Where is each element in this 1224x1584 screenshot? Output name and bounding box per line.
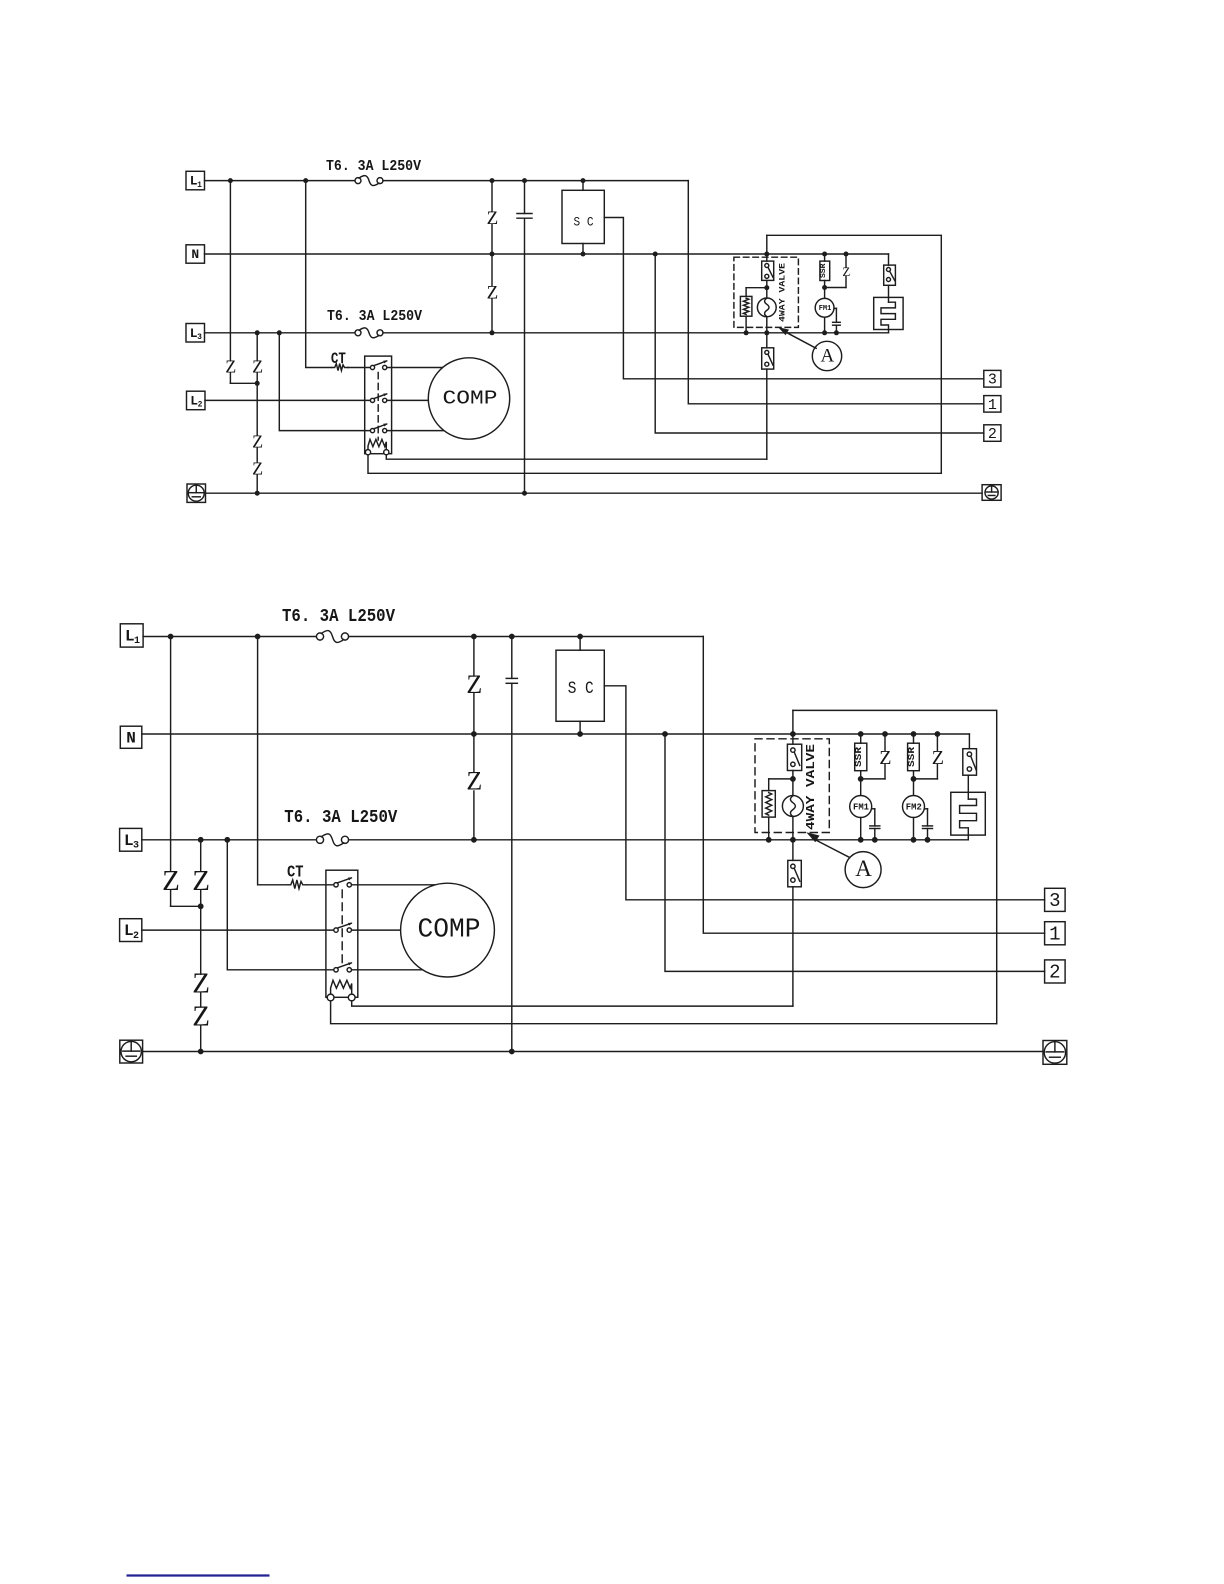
wire Z8 to FM2 node (2) xyxy=(914,778,938,780)
junction on N at x492 xyxy=(490,252,495,257)
junction on N at x825 xyxy=(822,252,827,257)
solid state relay SSR1 box (2) xyxy=(855,743,867,771)
relay contact S1 above valve (2) xyxy=(787,744,801,770)
wire outer loop top and right xyxy=(767,235,942,473)
wire relay right terminal to valve branch (2) xyxy=(352,1001,793,1006)
arrester Z2 left column (2) xyxy=(200,840,202,871)
heater element enclosure xyxy=(874,297,903,329)
junction on N at x861 (2) xyxy=(858,731,864,737)
arrester Z1 left column xyxy=(229,181,231,361)
junction on N at x767 xyxy=(764,252,769,257)
resistor HW boxed (2) xyxy=(768,779,770,791)
junction on N at x583 xyxy=(581,252,586,257)
wire L1 bus right of fuse (2) xyxy=(349,636,704,638)
wire relay pole1 to COMP xyxy=(387,367,469,369)
wire N to thermal switch xyxy=(888,254,890,265)
junction on L3 at x201 (2) xyxy=(198,837,204,843)
relay contact S1 above valve xyxy=(762,261,774,280)
junction on L3 at x257 xyxy=(255,330,260,335)
run capacitor C2 for FM1 (2) xyxy=(872,808,875,810)
wire HW to L3 (2) xyxy=(768,817,770,840)
junction on L1 at x258 (2) xyxy=(255,634,261,640)
arrester Z7 beside SSR1 (2) xyxy=(884,734,886,751)
relay contact S2 below valve (2) xyxy=(788,860,802,886)
svg-text:2: 2 xyxy=(1049,962,1060,984)
wire SC to N (2) xyxy=(579,721,581,734)
svg-text:S C: S C xyxy=(568,679,594,699)
wire FM2 to L3 (2) xyxy=(913,818,915,840)
junction on L3 at x769 (2) xyxy=(766,837,772,843)
overload heater element in relay (2) xyxy=(331,980,352,994)
relay terminal left xyxy=(365,450,370,455)
ground PE terminal right xyxy=(982,485,1001,501)
compressor motor COMP (2) xyxy=(401,883,495,977)
wire L1 to SC xyxy=(582,181,584,191)
wire N to thermal switch (2) xyxy=(968,734,970,749)
terminal 3 box (2) xyxy=(1045,888,1066,911)
arrester Z6 between N and L3 xyxy=(491,254,493,286)
wire contact to valve node xyxy=(766,280,768,298)
fan motor FM1 (2) xyxy=(850,796,872,818)
junction on N at x793 (2) xyxy=(790,731,796,737)
relay terminal right xyxy=(384,450,389,455)
relay contact S2 below valve xyxy=(762,348,774,369)
node L2 terminal box (2) xyxy=(120,919,142,942)
junction on L1 at x306 xyxy=(303,178,308,183)
junction on PE at x524 xyxy=(522,491,527,496)
wire Z7 to FM node xyxy=(825,287,846,289)
solid state relay SSR2 box (2) xyxy=(908,743,920,771)
terminal 2 box (2) xyxy=(1045,960,1066,983)
junction on PE at x201 (2) xyxy=(198,1049,204,1055)
junction on L1 at x230 xyxy=(228,178,233,183)
resistor HW boxed xyxy=(745,288,747,297)
wire SSR1 to FM1 node (2) xyxy=(860,771,862,796)
junction on L1 at x524 xyxy=(522,178,527,183)
svg-text:T6. 3A L250V: T6. 3A L250V xyxy=(327,308,422,325)
wire L3 tap to relay pole 3 xyxy=(279,333,370,431)
terminal 1 box xyxy=(984,396,1001,413)
wire valve branch upper (2) xyxy=(792,710,794,744)
wire Z7 to FM1 node (2) xyxy=(861,778,885,780)
junction on L3 at x746 xyxy=(744,330,749,335)
junction on N at x885 (2) xyxy=(882,731,888,737)
ground PE terminal right (2) xyxy=(1043,1041,1067,1065)
svg-text:N: N xyxy=(126,729,136,747)
wire valve node to HW xyxy=(746,287,767,289)
junction on L3 at x279 xyxy=(277,330,282,335)
wire SC output to terminal 3 xyxy=(604,218,984,379)
junction on L1 at x583 xyxy=(581,178,586,183)
junction on L3 at x793 (2) xyxy=(790,837,796,843)
wire valve branch below L3 xyxy=(766,333,768,348)
junction on L3 at x825 xyxy=(822,330,827,335)
svg-text:COMP: COMP xyxy=(443,387,498,409)
wire PE bus (2) xyxy=(143,1051,1043,1053)
node L1 terminal box (2) xyxy=(120,624,143,647)
blue underline mark at page bottom xyxy=(127,1574,270,1576)
junction on L3 at x875 (2) xyxy=(872,837,878,843)
junction FM node xyxy=(822,285,827,290)
wire L3 bus right of fuse (2) xyxy=(349,839,969,841)
svg-text:T6. 3A L250V: T6. 3A L250V xyxy=(284,807,398,828)
arrester Z5 between L1 and N xyxy=(491,181,493,212)
junction on L1 at x474 (2) xyxy=(471,634,477,640)
junction on L3 at x474 (2) xyxy=(471,837,477,843)
svg-text:N: N xyxy=(191,247,199,262)
junction FM1 node (2) xyxy=(858,776,864,782)
relay KM linkage dashed (2) xyxy=(341,890,343,966)
svg-text:1: 1 xyxy=(988,397,997,414)
wire relay pole3 to COMP xyxy=(387,430,469,432)
wire N bus (2) xyxy=(142,733,970,735)
svg-text:A: A xyxy=(855,856,872,881)
wire switch to heater xyxy=(888,285,890,302)
svg-text:SSR: SSR xyxy=(906,747,917,767)
svg-text:FM1: FM1 xyxy=(819,305,832,313)
wire contact to valve node (2) xyxy=(792,771,794,796)
wire HW to L3 xyxy=(745,316,747,333)
junction on PE at x512 (2) xyxy=(509,1049,515,1055)
heater element meander (2) xyxy=(960,799,977,840)
relay contact pole 2 (2) xyxy=(334,928,338,932)
wire L1 to SC (2) xyxy=(579,637,581,651)
svg-text:1: 1 xyxy=(1049,924,1060,946)
relay KM box (2) xyxy=(326,870,358,997)
svg-text:T6. 3A L250V: T6. 3A L250V xyxy=(326,158,421,175)
wire L1 tap to CT (2) xyxy=(258,637,288,885)
relay contact pole 3 (2) xyxy=(334,968,338,972)
current transformer CT coil xyxy=(332,364,349,371)
fan motor FM2 (2) xyxy=(903,796,925,818)
fuse F1 T6.3A L250V (2) xyxy=(316,633,323,640)
svg-text:3: 3 xyxy=(197,333,202,342)
wire relay left terminal to outer loop (2) xyxy=(331,1001,997,1024)
junction on N at x474 (2) xyxy=(471,731,477,737)
svg-text:SSR: SSR xyxy=(853,747,864,767)
wire L1 bus xyxy=(205,180,356,182)
relay contact pole 2 xyxy=(370,398,374,402)
overload heater element in relay xyxy=(368,439,386,449)
wire L3 bus (2) xyxy=(142,839,317,841)
fuse F2 T6.3A L250V xyxy=(355,330,361,336)
terminal 1 box (2) xyxy=(1045,922,1066,945)
svg-text:3: 3 xyxy=(1049,890,1060,912)
svg-text:S C: S C xyxy=(574,215,594,230)
wire N to SSR2 (2) xyxy=(913,734,915,743)
junction on N at x665 (2) xyxy=(662,731,668,737)
wire valve branch to relay return (2) xyxy=(792,887,794,1006)
svg-text:4WAY VALVE: 4WAY VALVE xyxy=(805,744,818,830)
node L2 terminal box xyxy=(187,391,206,410)
node L3 terminal box (2) xyxy=(120,828,142,851)
wire Z column below jog (2) xyxy=(200,891,202,975)
4-way valve dashed enclosure xyxy=(734,257,799,327)
wire valve to L3 (2) xyxy=(792,817,794,840)
solid state relay SSR box xyxy=(820,261,830,280)
svg-text:FM1: FM1 xyxy=(853,802,869,813)
ground PE terminal left (2) xyxy=(120,1040,143,1063)
wire jog to Z column 2 (2) xyxy=(171,905,201,907)
junction on L3 at x767 xyxy=(764,330,769,335)
thermal switch contact (2) xyxy=(963,749,977,776)
4-way valve dashed enclosure (2) xyxy=(755,739,829,833)
wire SC output to terminal 3 (2) xyxy=(604,686,1044,900)
wire FM1 to L3 xyxy=(824,317,826,333)
wire L2 to relay xyxy=(205,399,370,401)
wire L3 bus xyxy=(205,332,356,334)
arrester Z1 left column (2) xyxy=(170,637,172,872)
svg-text:1: 1 xyxy=(197,181,202,190)
wire relay pole1 to COMP (2) xyxy=(352,884,448,886)
node N terminal box (2) xyxy=(120,726,142,748)
wire PE bus xyxy=(206,492,983,494)
node L3 terminal box xyxy=(186,324,205,343)
svg-text:1: 1 xyxy=(134,636,140,647)
wire valve branch upper xyxy=(766,235,768,261)
svg-text:COMP: COMP xyxy=(418,915,481,945)
wire valve to L3 xyxy=(766,317,768,333)
wire N to terminal 2 (2) xyxy=(665,734,1045,971)
svg-text:2: 2 xyxy=(988,426,997,443)
label A with arrow to valve xyxy=(812,341,841,370)
current transformer CT coil (2) xyxy=(288,880,307,889)
wire Z column below jog xyxy=(256,373,258,436)
wire N to terminal 2 xyxy=(655,254,984,433)
arrester Z6 between N and L3 (2) xyxy=(473,734,475,771)
svg-text:CT: CT xyxy=(287,864,304,883)
run capacitor C3 for FM2 (2) xyxy=(925,808,928,810)
junction on N at x913 (2) xyxy=(911,731,917,737)
wire switch to heater (2) xyxy=(968,774,969,776)
junction on L3 at x913 (2) xyxy=(911,837,917,843)
heater element enclosure (2) xyxy=(951,792,986,835)
wire SC to N xyxy=(582,244,584,255)
wire relay pole3 to COMP (2) xyxy=(352,969,448,971)
fuse F1 T6.3A L250V xyxy=(355,178,361,184)
junction on PE at x257 xyxy=(255,491,260,496)
controller SC box xyxy=(562,190,604,243)
ground PE terminal left xyxy=(187,484,206,502)
junction on L1 at x492 xyxy=(490,178,495,183)
wire L3 bus right of fuse xyxy=(383,332,889,334)
wire relay right terminal to valve branch xyxy=(386,455,767,459)
capacitor C1 line filter (2) xyxy=(511,637,513,679)
junction valve node (2) xyxy=(790,776,796,782)
controller SC box (2) xyxy=(556,650,604,721)
junction on N at x937 (2) xyxy=(935,731,941,737)
fan motor FM1 xyxy=(815,298,834,317)
terminal 2 box xyxy=(984,425,1001,442)
svg-text:CT: CT xyxy=(331,350,346,368)
svg-text:3: 3 xyxy=(133,840,139,851)
wire L1 bus right of fuse xyxy=(383,180,688,182)
wire relay pole2 to COMP (2) xyxy=(352,929,448,931)
wire jog to Z column 2 xyxy=(230,382,257,384)
wire valve branch below L3 (2) xyxy=(792,840,794,861)
wire N bus xyxy=(205,253,889,255)
junction on L3 at x227 (2) xyxy=(224,837,230,843)
svg-text:2: 2 xyxy=(133,931,139,942)
svg-text:SSR: SSR xyxy=(820,263,828,278)
heater element meander xyxy=(881,302,895,333)
wire valve node to HW (2) xyxy=(769,778,793,780)
relay terminal right (2) xyxy=(348,994,355,1001)
wire relay pole2 to COMP xyxy=(387,399,469,401)
wire N to SSR1 (2) xyxy=(860,734,862,743)
wire L1 bus (2) xyxy=(143,636,316,638)
junction on L3 at x861 (2) xyxy=(858,837,864,843)
relay contact pole 1 xyxy=(370,365,374,369)
wire L1 to terminal 1 xyxy=(688,181,984,404)
junction on N at x846 xyxy=(844,252,849,257)
junction on L1 at x512 (2) xyxy=(509,634,515,640)
capacitor C1 line filter xyxy=(524,181,526,214)
arrester Z8 beside SSR2 (2) xyxy=(936,734,938,751)
wire N to SSR xyxy=(824,254,826,261)
junction on L3 at x836 xyxy=(834,330,839,335)
svg-text:A: A xyxy=(821,345,835,366)
svg-text:FM2: FM2 xyxy=(906,802,922,813)
arrester Z5 between L1 and N (2) xyxy=(473,637,475,677)
relay contact pole 3 xyxy=(370,429,374,433)
4-way valve solenoid coil (2) xyxy=(782,796,803,817)
svg-text:2: 2 xyxy=(198,401,203,410)
run capacitor C2 for FM1 xyxy=(834,307,836,309)
label A with arrow to valve (2) xyxy=(845,852,881,888)
thermal switch contact xyxy=(884,265,896,285)
junction on N at x580 (2) xyxy=(577,731,583,737)
wire L3 tap to relay pole 3 (2) xyxy=(227,840,334,970)
arrester Z2 left column xyxy=(256,333,258,361)
junction on L1 at x171 (2) xyxy=(168,634,174,640)
relay contact pole 1 (2) xyxy=(334,883,338,887)
junction on N at x655 xyxy=(653,252,658,257)
wire SSR to FM node xyxy=(824,281,826,299)
wire relay left terminal to outer loop xyxy=(368,455,941,474)
svg-text:4WAY VALVE: 4WAY VALVE xyxy=(779,263,788,322)
4-way valve solenoid coil xyxy=(757,298,776,317)
fuse F2 T6.3A L250V (2) xyxy=(316,836,323,843)
wire SSR2 to FM2 node (2) xyxy=(913,771,915,796)
svg-text:T6. 3A L250V: T6. 3A L250V xyxy=(282,606,396,627)
wire valve branch to relay return xyxy=(766,369,768,459)
junction valve node xyxy=(764,285,769,290)
node L1 terminal box xyxy=(186,171,205,190)
junction on L3 at x927 (2) xyxy=(925,837,931,843)
wire L1 to terminal 1 (2) xyxy=(703,637,1044,934)
wire CT to relay contact xyxy=(348,367,370,369)
arrester Z7 beside SSR xyxy=(845,254,847,268)
node N terminal box xyxy=(186,245,205,263)
junction on L3 at x492 xyxy=(490,330,495,335)
relay terminal left (2) xyxy=(327,994,334,1001)
svg-text:3: 3 xyxy=(988,372,997,389)
wire L2 to relay (2) xyxy=(142,929,334,931)
junction on L1 at x580 (2) xyxy=(577,634,583,640)
relay KM linkage dashed xyxy=(377,373,379,441)
wire L1 tap to CT xyxy=(306,181,332,368)
junction FM2 node (2) xyxy=(911,776,917,782)
wire outer loop top and right (2) xyxy=(793,710,997,1023)
wire FM1 to L3 (2) xyxy=(860,818,862,840)
compressor motor COMP xyxy=(428,358,509,439)
relay KM box xyxy=(365,356,392,454)
wire CT to relay contact (2) xyxy=(307,884,334,886)
terminal 3 box xyxy=(984,370,1001,387)
